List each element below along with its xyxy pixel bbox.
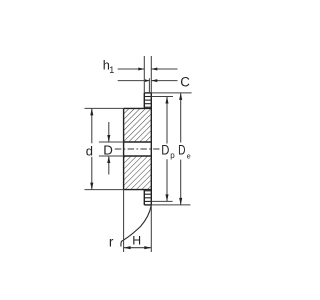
dimension d line upper xyxy=(91,108,93,143)
right face xyxy=(150,93,152,205)
H ext line left xyxy=(123,190,125,252)
svg-text:e: e xyxy=(187,153,191,160)
H ext line right xyxy=(150,205,152,252)
D bore ext line top xyxy=(99,141,124,143)
svg-text:H: H xyxy=(132,233,141,247)
tooth profile lines upper band xyxy=(144,97,151,108)
tooth flank radius curve r xyxy=(121,205,151,247)
h1 arrow left xyxy=(138,68,144,71)
D bore ext line bottom xyxy=(99,155,124,157)
H arrow left xyxy=(124,246,131,249)
svg-text:p: p xyxy=(170,151,175,160)
Dp ext line top xyxy=(151,96,173,98)
Dp arrow down xyxy=(165,194,168,201)
d ext line bottom xyxy=(85,189,124,191)
dimension C line left xyxy=(118,80,150,82)
dimension h1 line left xyxy=(118,68,145,70)
outer diameter top edge xyxy=(144,92,151,94)
dimension d line lower xyxy=(91,157,93,190)
dimension De line upper xyxy=(180,93,182,143)
bore bottom edge xyxy=(124,155,152,157)
dimension D line lower xyxy=(108,156,110,175)
d ext line top xyxy=(85,107,124,109)
d arrow down xyxy=(90,183,93,190)
extension lines xyxy=(85,56,192,252)
outer diameter bottom edge xyxy=(144,204,151,206)
tooth profile lines lower band xyxy=(144,191,151,202)
Dp ext line bottom xyxy=(151,200,172,202)
hub top edge xyxy=(124,107,152,109)
svg-text:r: r xyxy=(109,234,114,249)
ext line right of tooth top xyxy=(150,56,152,93)
hub bottom edge xyxy=(124,189,152,191)
C arrow left xyxy=(145,79,150,82)
ext line left of tooth top xyxy=(143,56,145,93)
hub left edge xyxy=(123,108,125,189)
D arrow up xyxy=(107,156,110,163)
bore top edge xyxy=(124,141,152,143)
dimension H line xyxy=(124,247,152,249)
De arrow down xyxy=(179,198,182,205)
svg-text:D: D xyxy=(178,142,186,158)
dimension De line lower xyxy=(180,160,182,205)
tooth column left wall lower xyxy=(143,190,145,205)
Dp arrow up xyxy=(165,97,168,104)
De ext line top xyxy=(151,92,191,94)
C arrow right xyxy=(151,79,157,82)
dimension h1 line right xyxy=(151,68,177,70)
dimension Dp line lower xyxy=(166,159,168,201)
dimension Dp line upper xyxy=(166,97,168,144)
centerline (axis) xyxy=(115,148,160,150)
svg-text:D: D xyxy=(103,143,113,158)
dimension D line upper xyxy=(108,122,110,142)
hatched hub section lower xyxy=(124,156,152,190)
d arrow up xyxy=(90,108,93,115)
svg-text:d: d xyxy=(86,143,93,158)
svg-text:1: 1 xyxy=(109,65,114,75)
dimension C line right xyxy=(151,80,177,82)
tooth column left wall upper xyxy=(143,93,145,109)
De arrow up xyxy=(179,93,182,100)
hatched hub section upper xyxy=(124,108,152,142)
h1 arrow right xyxy=(151,68,157,71)
svg-text:C: C xyxy=(180,75,190,90)
D arrow down xyxy=(107,135,110,142)
chamfer ext line xyxy=(148,78,150,93)
De ext line bottom xyxy=(151,204,190,206)
svg-text:D: D xyxy=(161,142,169,157)
H arrow right xyxy=(144,246,151,249)
